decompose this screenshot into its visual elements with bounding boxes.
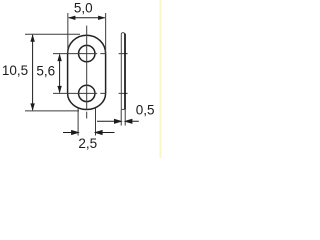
dim 0,5 ext lines bbox=[121, 110, 125, 126]
svg-text:5,0: 5,0 bbox=[74, 1, 93, 16]
svg-text:0,5: 0,5 bbox=[136, 102, 155, 117]
page artifact: pale yellow rule at right edge bbox=[159, 0, 161, 158]
dim 5,6 arrow down bbox=[57, 86, 61, 94]
dim 5,6 arrow up bbox=[57, 54, 61, 62]
dim 2,5 arrow left bbox=[63, 131, 78, 135]
dim 2,5 arrow right bbox=[96, 131, 115, 135]
hole bottom bbox=[79, 85, 95, 101]
dim 5,6 line bbox=[59, 54, 61, 92]
dim 10,5 ext lines bbox=[25, 34, 80, 111]
hole top bbox=[79, 45, 95, 61]
side view body bbox=[121, 33, 125, 110]
dim 0,5 arrow left bbox=[97, 119, 121, 123]
svg-text:5,6: 5,6 bbox=[36, 64, 55, 79]
vertical centerline bbox=[86, 26, 88, 119]
dim 5,0 arrow left bbox=[68, 16, 76, 20]
dim 0,5 arrow right bbox=[125, 119, 138, 123]
dim 5,0 arrow right bbox=[98, 16, 106, 20]
horizontal centerline bottom hole bbox=[53, 92, 128, 94]
horizontal centerline top hole bbox=[53, 53, 128, 55]
front view plate outline (stadium) bbox=[68, 35, 106, 109]
dim 2,5 ext lines (hole edges projected) bbox=[78, 108, 95, 136]
dim 10,5 line bbox=[32, 35, 34, 110]
svg-text:10,5: 10,5 bbox=[2, 63, 28, 78]
dim 10,5 arrow down bbox=[30, 103, 34, 111]
side view right edge heavy bbox=[124, 34, 126, 110]
svg-text:2,5: 2,5 bbox=[78, 136, 97, 151]
dim 10,5 arrow up bbox=[30, 34, 34, 42]
dim 5,0 line bbox=[69, 17, 105, 19]
dim 5,0 ext lines bbox=[68, 13, 106, 54]
